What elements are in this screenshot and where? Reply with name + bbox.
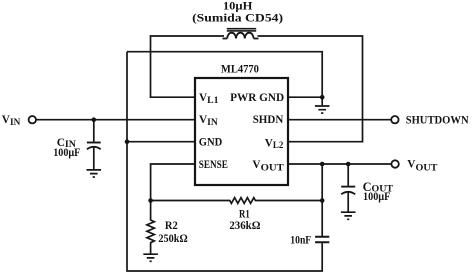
- svg-text:10µH: 10µH: [223, 0, 253, 13]
- svg-text:236kΩ: 236kΩ: [229, 220, 260, 232]
- svg-text:SHDN: SHDN: [253, 114, 284, 126]
- svg-text:R1: R1: [239, 209, 250, 221]
- svg-text:SENSE: SENSE: [199, 159, 228, 171]
- svg-text:PWR GND: PWR GND: [230, 92, 284, 104]
- svg-text:(Sumida CD54): (Sumida CD54): [192, 13, 283, 25]
- svg-text:250kΩ: 250kΩ: [158, 233, 187, 245]
- svg-text:100µF: 100µF: [53, 147, 80, 159]
- svg-text:10nF: 10nF: [290, 234, 311, 246]
- svg-text:VL2: VL2: [265, 137, 284, 150]
- svg-text:SHUTDOWN: SHUTDOWN: [406, 113, 469, 126]
- svg-text:GND: GND: [199, 136, 222, 148]
- svg-text:R2: R2: [165, 220, 178, 232]
- svg-text:100µF: 100µF: [363, 191, 390, 203]
- svg-text:ML4770: ML4770: [221, 64, 259, 76]
